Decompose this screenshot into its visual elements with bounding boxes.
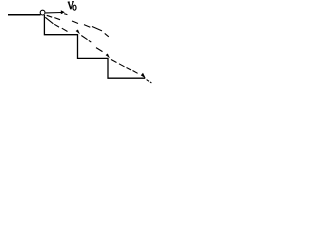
upper dashed line dash u5 <box>84 25 90 28</box>
trajectory arrowhead at step corner 1 <box>76 30 80 35</box>
ball <box>40 10 45 15</box>
trajectory dash l10 <box>133 71 138 74</box>
upper dashed line dash u1 <box>47 15 53 17</box>
upper dashed line dash u3 <box>64 13 67 16</box>
trajectory dash l8 <box>119 64 125 67</box>
trajectory dash l2 <box>54 24 59 27</box>
trajectory dash l3 <box>62 28 68 31</box>
upper dashed line dash u6 <box>92 27 102 31</box>
trajectory dash l7 <box>111 60 117 63</box>
trajectory tail dash t2 <box>150 82 151 83</box>
velocity arrow head <box>61 10 65 14</box>
trajectory dash l5 <box>89 40 92 42</box>
staircase <box>44 15 145 78</box>
trajectory tail dash t1 <box>147 80 149 82</box>
upper dashed line dash u2 <box>54 18 60 20</box>
upper dashed line dash u7 <box>105 33 109 36</box>
label v0 (drawn as vector glyphs) <box>68 2 76 11</box>
upper dashed line dash u4 <box>72 21 78 24</box>
trajectory arrowhead at step corner 3 <box>141 73 146 79</box>
trajectory dash l1 <box>45 17 53 24</box>
trajectory dash l6 <box>96 48 103 52</box>
trajectory arrowhead at step corner 2 <box>106 54 110 59</box>
trajectory dash l9 <box>127 68 132 70</box>
velocity arrow shaft <box>46 12 62 14</box>
trajectory dash l4 <box>81 36 87 40</box>
top surface line <box>8 14 41 16</box>
